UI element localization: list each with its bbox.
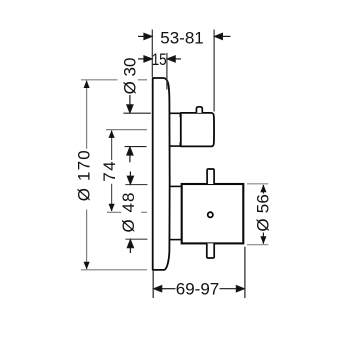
knob collar (upper sleeve) bbox=[169, 113, 181, 146]
escutcheon plate (side profile) bbox=[153, 78, 170, 270]
extension line left (plate front) bbox=[151, 30, 153, 78]
svg-text:Ø 170: Ø 170 bbox=[74, 150, 93, 201]
valve block sleeve (lower) bbox=[169, 186, 181, 239]
block bottom tab bbox=[207, 243, 214, 258]
svg-text:Ø 48: Ø 48 bbox=[119, 193, 138, 233]
ext line top bbox=[81, 80, 147, 270]
svg-text:Ø 30: Ø 30 bbox=[120, 58, 139, 95]
svg-text:53-81: 53-81 bbox=[160, 28, 203, 47]
svg-text:15: 15 bbox=[152, 50, 167, 69]
dim line + arrows 53-81 bbox=[138, 33, 231, 39]
thermostat knob body bbox=[181, 113, 214, 146]
svg-text:74: 74 bbox=[100, 161, 119, 182]
svg-text:Ø 56: Ø 56 bbox=[253, 194, 272, 232]
valve block (square body) bbox=[182, 184, 244, 243]
ext lines (sleeve top/bottom) bbox=[125, 184, 147, 186]
arrows outside pointing inward bbox=[127, 95, 133, 162]
ext lines (knob top/bottom) bbox=[123, 112, 150, 114]
svg-text:69-97: 69-97 bbox=[176, 280, 219, 299]
block center screw circle bbox=[208, 212, 213, 217]
dim line Ø170 bbox=[86, 80, 88, 269]
block top tab bbox=[207, 169, 214, 184]
extension line right of 15 bbox=[166, 53, 168, 90]
knob top button bbox=[196, 107, 202, 113]
extension line right (knob face) bbox=[213, 30, 215, 112]
